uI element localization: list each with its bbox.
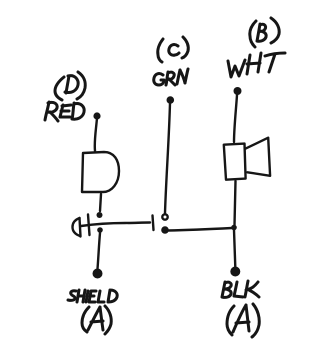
label (C) — [158, 37, 189, 62]
connector bar 1 — [80, 218, 81, 237]
label (D) — [55, 72, 85, 100]
connector plug (arc) — [73, 218, 81, 236]
label GRN — [154, 69, 188, 85]
T-bar terminal — [153, 216, 154, 231]
node above connector — [97, 212, 103, 218]
node below connector — [97, 227, 103, 233]
label RED — [45, 102, 84, 121]
connector bar 2 — [88, 215, 90, 236]
wire horizontal left — [81, 223, 150, 227]
wire connector to SHIELD — [98, 233, 101, 269]
node SHIELD — [93, 269, 103, 279]
wire junction to BLK line — [168, 228, 232, 231]
wire RED to mic — [95, 118, 97, 151]
node B (WHT terminal) — [234, 87, 242, 95]
wire mic to connector — [100, 194, 101, 211]
node C (GRN terminal) — [167, 96, 175, 104]
wire WHT to speaker — [234, 95, 237, 142]
microphone element — [82, 152, 119, 192]
label (A) right — [227, 304, 259, 337]
open circle terminal GRN — [162, 214, 167, 219]
wire junction to BLK dot — [234, 230, 235, 267]
node BLK — [230, 267, 240, 277]
label (A) left — [82, 306, 111, 334]
wire GRN down — [165, 103, 170, 213]
wire speaker to junction — [235, 181, 236, 225]
speaker body — [224, 144, 246, 180]
label (B) — [250, 18, 279, 47]
junction node — [161, 226, 169, 234]
node D (RED terminal) — [93, 112, 100, 119]
label BLK — [222, 281, 259, 297]
label SHIELD — [68, 290, 117, 302]
junction node BLK — [231, 225, 237, 231]
speaker horn — [246, 138, 271, 176]
label WHT — [228, 53, 285, 77]
